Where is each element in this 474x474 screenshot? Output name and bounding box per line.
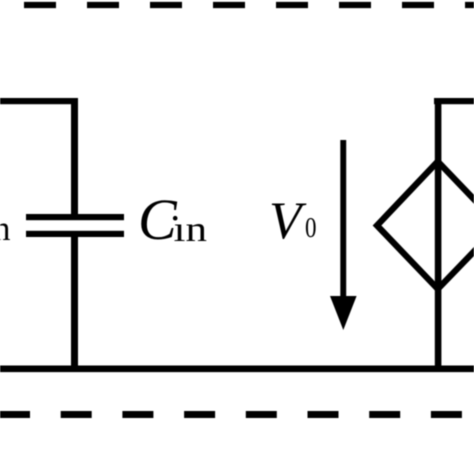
arrow V0: head: [330, 296, 357, 330]
svg-text:V: V: [269, 192, 307, 250]
arrow V0: shaft: [340, 140, 346, 302]
wire: dependent source vertical lead through diamond: [435, 98, 442, 369]
capacitor Cin top plate: [26, 214, 124, 220]
svg-text:0: 0: [305, 212, 317, 244]
svg-text:n: n: [0, 209, 11, 248]
svg-text:ın: ın: [174, 209, 208, 249]
wire: capacitor bottom lead: [71, 234, 78, 369]
label Cin: dot of subscript i: [173, 216, 178, 221]
dependent source diamond (clipped at right edge): [377, 162, 474, 290]
wire: bottom boundary dashed line: [0, 411, 474, 418]
wire: right top horizontal segment: [434, 98, 474, 104]
wire: capacitor top lead: [71, 98, 78, 217]
wire: top boundary dashed line: [0, 2, 474, 8]
svg-text:C: C: [138, 187, 178, 252]
wire: bottom rail (ground bus): [0, 366, 474, 373]
capacitor Cin bottom plate: [26, 231, 124, 237]
wire: left top horizontal segment: [0, 98, 78, 104]
